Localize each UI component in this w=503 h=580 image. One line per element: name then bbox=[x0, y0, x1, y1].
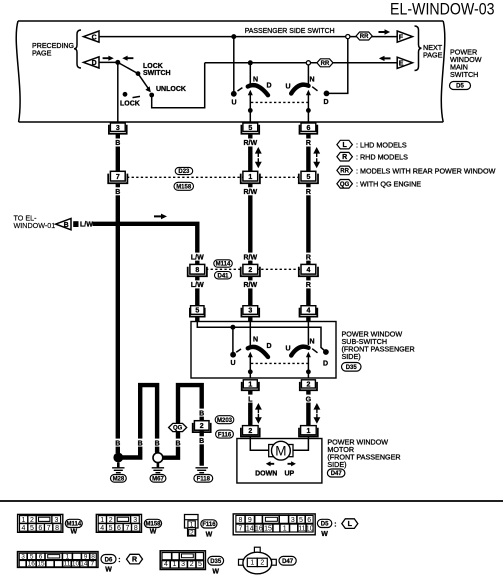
wire circle to N right switch bbox=[307, 65, 309, 84]
svg-text:R/W: R/W bbox=[243, 254, 257, 261]
ground M28 bbox=[113, 453, 123, 463]
svg-text:M203: M203 bbox=[217, 418, 233, 424]
svg-text:M: M bbox=[275, 444, 286, 459]
svg-text:U: U bbox=[231, 360, 236, 367]
svg-text:2: 2 bbox=[30, 517, 34, 524]
oval M158 panel ref bbox=[144, 519, 161, 527]
power window motor box outline bbox=[237, 439, 322, 484]
oval M114 ref bbox=[214, 260, 233, 267]
svg-text:1: 1 bbox=[283, 526, 287, 533]
wire R col3 conn5 to conn4 bbox=[306, 183, 310, 264]
double arrow col3 bbox=[314, 149, 319, 158]
connector 6 on main switch bbox=[300, 125, 318, 134]
label B col1 bottom bbox=[114, 439, 123, 447]
oval M114 panel ref bbox=[65, 519, 82, 527]
svg-text:D47: D47 bbox=[331, 471, 343, 477]
hexagon L panel bbox=[342, 519, 358, 529]
contact UNLOCK bbox=[149, 93, 154, 98]
dashed splice row2 bbox=[206, 268, 300, 270]
svg-text:R/W: R/W bbox=[243, 189, 257, 196]
label B above conn2 bbox=[197, 409, 206, 417]
svg-text:1: 1 bbox=[100, 517, 104, 524]
oval D41 ref bbox=[215, 272, 232, 279]
svg-text:B: B bbox=[115, 189, 120, 196]
svg-text:2: 2 bbox=[260, 560, 264, 567]
sub left wiper bbox=[249, 357, 251, 372]
page connector triangle B bbox=[56, 218, 71, 229]
svg-text:14: 14 bbox=[246, 526, 254, 533]
dashed splice row1 bbox=[127, 176, 300, 178]
legend hexagon R bbox=[337, 152, 353, 161]
wire junction to connector 3 bbox=[117, 62, 119, 122]
svg-text:M114: M114 bbox=[66, 522, 81, 528]
svg-text:RR: RR bbox=[360, 34, 369, 40]
svg-text:15: 15 bbox=[264, 526, 272, 533]
svg-text:6: 6 bbox=[307, 517, 311, 524]
svg-text:9: 9 bbox=[248, 517, 252, 524]
dashed link sub wipers bbox=[251, 362, 308, 364]
svg-text:: WITH QG ENGINE: : WITH QG ENGINE bbox=[356, 180, 421, 189]
oval D47 panel ref bbox=[279, 556, 296, 565]
label L/W above conn8 bbox=[190, 253, 204, 261]
svg-text::: : bbox=[118, 557, 120, 564]
arrow right on LW wire bbox=[154, 214, 167, 220]
wire sub conn4 to N right bbox=[307, 322, 309, 346]
wire unlock to E row bbox=[152, 63, 205, 108]
svg-text:8: 8 bbox=[238, 517, 242, 524]
main right D contact bbox=[324, 91, 330, 97]
main left wiper bbox=[249, 95, 251, 110]
connector 1 on motor bbox=[299, 428, 318, 437]
svg-text:3: 3 bbox=[55, 517, 59, 524]
svg-text:16: 16 bbox=[255, 526, 263, 533]
junction node C row bbox=[231, 34, 236, 39]
open circle node E row bbox=[306, 61, 310, 65]
sub switch right rocker arc bbox=[291, 347, 308, 356]
RR hexagon on E row bbox=[317, 59, 333, 67]
svg-text:B: B bbox=[115, 440, 120, 447]
svg-text:6: 6 bbox=[306, 125, 310, 132]
oval D35 ref bbox=[342, 363, 362, 372]
connector face D35 bbox=[160, 551, 205, 570]
svg-text:1: 1 bbox=[306, 428, 310, 435]
motor M symbol bbox=[269, 445, 293, 457]
svg-text:: RHD MODELS: : RHD MODELS bbox=[356, 153, 408, 162]
svg-text:2: 2 bbox=[200, 423, 204, 430]
svg-text:QG: QG bbox=[173, 426, 183, 432]
wire B col1 conn3 to conn7 bbox=[116, 134, 120, 172]
svg-text:D: D bbox=[324, 99, 329, 106]
ground F118 bbox=[196, 468, 208, 473]
arrow left on D wire bbox=[122, 56, 133, 61]
svg-text:RR: RR bbox=[340, 169, 349, 175]
svg-text:W: W bbox=[206, 532, 213, 539]
svg-text:D41: D41 bbox=[217, 273, 229, 279]
svg-text:L/W: L/W bbox=[191, 254, 204, 261]
svg-text:U: U bbox=[286, 346, 291, 353]
connector 5 on main switch bbox=[241, 125, 259, 134]
svg-text::: : bbox=[334, 522, 336, 529]
lock switch pivot wire bbox=[118, 62, 138, 73]
svg-text:UNLOCK: UNLOCK bbox=[156, 86, 186, 93]
svg-text:B: B bbox=[64, 222, 69, 229]
wire motor conn2 internal bbox=[250, 437, 268, 451]
svg-text:L/W: L/W bbox=[80, 222, 93, 229]
svg-text:10: 10 bbox=[72, 561, 80, 568]
svg-text:5: 5 bbox=[30, 553, 34, 560]
svg-text:F: F bbox=[399, 34, 404, 41]
wire C row bbox=[99, 36, 397, 38]
svg-text:B: B bbox=[138, 440, 143, 447]
wire D row to junction bbox=[99, 61, 118, 63]
svg-text:5: 5 bbox=[195, 308, 199, 315]
svg-text:UP: UP bbox=[285, 471, 295, 478]
svg-text:1: 1 bbox=[190, 521, 194, 528]
arrow left DOWN bbox=[266, 461, 274, 466]
main right wiper bbox=[307, 95, 309, 110]
connector face D5 bbox=[233, 514, 315, 535]
svg-text:W: W bbox=[321, 531, 328, 538]
svg-text:PAGE: PAGE bbox=[32, 49, 52, 58]
arrow right on F row bbox=[379, 29, 391, 34]
open circle node C row bbox=[346, 35, 350, 39]
brace right bbox=[415, 26, 422, 71]
oval D23 ref bbox=[175, 167, 193, 174]
wire start square bbox=[73, 221, 78, 227]
svg-text:D6: D6 bbox=[105, 557, 113, 563]
svg-text:D: D bbox=[267, 83, 272, 90]
svg-text:L/W: L/W bbox=[191, 282, 204, 289]
svg-text:B: B bbox=[115, 140, 120, 147]
ground M67 bbox=[153, 453, 163, 463]
svg-text:7: 7 bbox=[238, 526, 242, 533]
svg-text:2: 2 bbox=[190, 561, 194, 568]
svg-text:WINDOW-01: WINDOW-01 bbox=[14, 221, 56, 230]
oval F116 panel ref bbox=[201, 520, 217, 528]
svg-text:7: 7 bbox=[47, 525, 51, 532]
svg-text:R: R bbox=[342, 154, 347, 161]
svg-text:: LHD MODELS: : LHD MODELS bbox=[356, 141, 407, 150]
oval M158 ref bbox=[174, 182, 194, 190]
arrow right on D wire bbox=[103, 56, 114, 61]
svg-text:SIDE): SIDE) bbox=[342, 352, 361, 361]
svg-text:D: D bbox=[267, 343, 272, 350]
svg-text:F118: F118 bbox=[197, 477, 211, 483]
wire L sub conn1 to motor conn2 bbox=[248, 390, 252, 425]
arrow right UP bbox=[288, 461, 296, 466]
legend hexagon QG bbox=[337, 180, 353, 189]
oval F116 ref bbox=[216, 430, 234, 438]
svg-text:L: L bbox=[248, 396, 253, 403]
svg-text:R/W: R/W bbox=[243, 282, 257, 289]
svg-text:M158: M158 bbox=[176, 185, 192, 191]
svg-text:SIDE): SIDE) bbox=[327, 460, 346, 469]
main switch left rocker arc bbox=[248, 85, 268, 95]
svg-text:4: 4 bbox=[100, 525, 104, 532]
arrow left on E row bbox=[379, 56, 391, 61]
junction node D bbox=[115, 60, 120, 65]
connector 2 on motor bbox=[241, 428, 260, 437]
svg-text:U: U bbox=[232, 100, 237, 107]
wire RW col2 conn1 to conn2 bbox=[248, 183, 252, 264]
svg-text:D5: D5 bbox=[456, 84, 464, 90]
svg-text:M28: M28 bbox=[113, 477, 125, 483]
svg-text:EL-WINDOW-03: EL-WINDOW-03 bbox=[390, 0, 495, 19]
oval D5 panel ref bbox=[317, 519, 331, 527]
label B below conn2 bbox=[197, 436, 206, 444]
connector 7 inline bbox=[108, 174, 127, 184]
svg-text:F116: F116 bbox=[202, 522, 216, 528]
page connector triangle D bbox=[84, 57, 100, 68]
svg-text:8: 8 bbox=[91, 553, 95, 560]
svg-text:D23: D23 bbox=[178, 169, 190, 175]
sub right D contact bbox=[323, 349, 329, 355]
wire R col3 conn6 to conn5 bbox=[306, 134, 310, 172]
connector 5 on sub-switch bbox=[190, 308, 205, 317]
wire E row bbox=[205, 62, 398, 64]
wire sub conn3 to N left bbox=[249, 322, 251, 346]
contact LOCK bbox=[123, 92, 128, 97]
svg-text:4: 4 bbox=[306, 308, 310, 315]
svg-text:1: 1 bbox=[66, 553, 70, 560]
svg-text:W: W bbox=[70, 529, 77, 536]
svg-text:N: N bbox=[253, 337, 258, 344]
svg-text:5: 5 bbox=[30, 525, 34, 532]
hexagon R panel bbox=[127, 554, 143, 564]
svg-text:B: B bbox=[155, 440, 160, 447]
main switch right rocker arc bbox=[291, 85, 308, 94]
svg-text:3: 3 bbox=[116, 125, 120, 132]
svg-text:W: W bbox=[150, 529, 157, 536]
double arrow motor col2 bbox=[256, 405, 261, 414]
svg-text:8: 8 bbox=[195, 267, 199, 274]
svg-text:D47: D47 bbox=[282, 559, 294, 565]
connector 1 on sub-switch bottom bbox=[242, 382, 259, 390]
svg-text:R: R bbox=[132, 557, 137, 564]
brace left bbox=[74, 30, 81, 68]
svg-text:C: C bbox=[92, 34, 97, 41]
wire sub wipers to bottom connectors bbox=[249, 372, 251, 378]
wire B col1 long down bbox=[116, 183, 120, 453]
wire RW conn2 to sub conn3 bbox=[248, 276, 252, 306]
separator line bbox=[0, 500, 503, 502]
svg-text:B: B bbox=[199, 410, 204, 417]
svg-text:5: 5 bbox=[198, 561, 202, 568]
svg-text:5: 5 bbox=[306, 174, 310, 181]
double arrow motor col3 bbox=[315, 405, 320, 414]
svg-text:M158: M158 bbox=[145, 522, 161, 528]
svg-text:B: B bbox=[175, 440, 180, 447]
svg-text:2: 2 bbox=[109, 517, 113, 524]
svg-text:D: D bbox=[323, 361, 328, 368]
svg-text:8: 8 bbox=[134, 525, 138, 532]
wire wiper left to connector 5 bbox=[249, 110, 251, 122]
svg-text:15: 15 bbox=[37, 561, 45, 568]
svg-text:2: 2 bbox=[248, 267, 252, 274]
sub switch left rocker arc bbox=[248, 347, 268, 357]
svg-text:N: N bbox=[310, 339, 315, 346]
wire sub conn5 internal feed bbox=[197, 322, 326, 352]
junction node sub bbox=[230, 325, 235, 330]
page connector triangle F bbox=[397, 31, 412, 42]
svg-text:D5: D5 bbox=[321, 522, 329, 528]
svg-text:5: 5 bbox=[109, 525, 113, 532]
svg-text:3: 3 bbox=[21, 553, 25, 560]
svg-text:D35: D35 bbox=[210, 559, 222, 565]
oval D5 ref bbox=[450, 82, 471, 90]
svg-text:1: 1 bbox=[250, 560, 254, 567]
svg-text:8: 8 bbox=[55, 525, 59, 532]
svg-text:3: 3 bbox=[291, 517, 295, 524]
svg-text:: MODELS WITH REAR POWER WINDO: : MODELS WITH REAR POWER WINDOW bbox=[356, 166, 496, 175]
lock contact dash bbox=[133, 96, 141, 97]
svg-text:2: 2 bbox=[248, 428, 252, 435]
connector face D6 bbox=[18, 552, 99, 568]
connector 2 inline bottom bbox=[193, 423, 211, 432]
power window main switch box outline bbox=[16, 21, 445, 122]
oval D6 panel ref bbox=[101, 555, 116, 564]
lock switch arm bbox=[138, 74, 149, 90]
connector face D47 round bbox=[254, 547, 260, 553]
connector 3 on main switch bbox=[109, 125, 127, 134]
svg-text:9: 9 bbox=[84, 553, 88, 560]
junction node E row bbox=[248, 60, 253, 65]
connector 2 on sub-switch bottom bbox=[300, 382, 317, 390]
connector 5 inline bbox=[299, 174, 318, 184]
svg-text:7: 7 bbox=[125, 525, 129, 532]
svg-text:LOCK: LOCK bbox=[120, 101, 140, 108]
connector 2 inline bbox=[241, 267, 260, 277]
svg-text:D: D bbox=[92, 60, 97, 67]
svg-text:6: 6 bbox=[117, 525, 121, 532]
svg-text:L: L bbox=[348, 521, 353, 528]
svg-text:2: 2 bbox=[306, 382, 310, 389]
svg-text:14: 14 bbox=[80, 561, 88, 568]
svg-text:LOCK: LOCK bbox=[143, 63, 163, 70]
wire R conn4 to sub conn4 bbox=[306, 276, 310, 306]
svg-text:G: G bbox=[306, 396, 312, 403]
svg-text:SWITCH: SWITCH bbox=[143, 70, 171, 77]
svg-text:7: 7 bbox=[116, 174, 120, 181]
svg-text:R: R bbox=[306, 282, 311, 289]
oval M203 ref bbox=[215, 416, 234, 424]
connector 4 inline bbox=[299, 267, 318, 277]
svg-text:R/W: R/W bbox=[243, 140, 257, 147]
svg-text:M67: M67 bbox=[152, 477, 164, 483]
svg-text:3: 3 bbox=[248, 308, 252, 315]
svg-text:B: B bbox=[199, 438, 204, 445]
svg-text:DOWN: DOWN bbox=[255, 471, 277, 478]
svg-text:1: 1 bbox=[248, 174, 252, 181]
ground hook wire M28 to M67 bbox=[121, 385, 157, 457]
main left U contact bbox=[231, 91, 237, 97]
svg-text:2: 2 bbox=[190, 530, 194, 537]
svg-text:RR: RR bbox=[321, 61, 330, 67]
svg-text:7: 7 bbox=[90, 561, 94, 568]
RR hexagon on C row bbox=[356, 32, 372, 40]
svg-text:D35: D35 bbox=[346, 365, 358, 371]
svg-text:3: 3 bbox=[133, 517, 137, 524]
connector 4 on sub-switch bbox=[300, 308, 318, 317]
svg-text:N: N bbox=[310, 77, 315, 84]
page connector triangle C bbox=[84, 31, 100, 42]
svg-text:R: R bbox=[306, 254, 311, 261]
svg-text:W: W bbox=[212, 569, 219, 576]
connector 3 on sub-switch bbox=[241, 308, 259, 317]
page connector triangle E bbox=[397, 57, 412, 68]
wire C junction down to U contact bbox=[233, 37, 235, 91]
svg-text:E: E bbox=[399, 61, 404, 68]
svg-text:11: 11 bbox=[64, 561, 71, 568]
wire G sub conn2 to motor conn1 bbox=[306, 390, 310, 425]
svg-text:5: 5 bbox=[299, 517, 303, 524]
connector 8 inline bbox=[188, 267, 207, 277]
QG hexagon on wire bbox=[169, 423, 187, 431]
svg-text:PASSENGER SIDE SWITCH: PASSENGER SIDE SWITCH bbox=[245, 26, 335, 35]
svg-text:4: 4 bbox=[306, 267, 310, 274]
svg-text:4: 4 bbox=[164, 561, 168, 568]
svg-text:L: L bbox=[342, 142, 347, 149]
wire motor conn1 internal bbox=[293, 437, 308, 451]
svg-text:6: 6 bbox=[39, 553, 43, 560]
ground hook wire M67 to F118 bbox=[163, 385, 202, 466]
sub right wiper bbox=[307, 357, 309, 372]
connector face F116 bbox=[185, 515, 199, 537]
svg-text:F116: F116 bbox=[218, 432, 232, 438]
oval D47 ref bbox=[327, 469, 345, 477]
double arrow col2 bbox=[256, 149, 261, 158]
svg-text:10: 10 bbox=[306, 526, 314, 533]
wire LW conn8 to sub conn5 bbox=[195, 276, 199, 306]
svg-text:1: 1 bbox=[22, 517, 26, 524]
svg-text:M114: M114 bbox=[216, 262, 231, 268]
svg-text:W: W bbox=[105, 567, 112, 574]
svg-text:16: 16 bbox=[28, 561, 36, 568]
svg-text:11: 11 bbox=[298, 526, 305, 533]
svg-text:QG: QG bbox=[340, 182, 350, 188]
wire wiper right to connector 6 bbox=[307, 110, 309, 122]
svg-text:5: 5 bbox=[248, 125, 252, 132]
legend hexagon L bbox=[337, 140, 353, 149]
dashed link between wipers bbox=[251, 101, 308, 103]
wire D contact right switch to C row bbox=[329, 39, 348, 94]
svg-text:4: 4 bbox=[22, 525, 26, 532]
svg-text:6: 6 bbox=[38, 525, 42, 532]
svg-text:3: 3 bbox=[181, 561, 185, 568]
connector face M114 bbox=[18, 514, 63, 532]
power window sub-switch box outline bbox=[191, 322, 336, 379]
sub left U contact bbox=[230, 352, 236, 358]
lock switch pivot bbox=[136, 71, 141, 76]
wire junction to U contact sub bbox=[232, 327, 234, 352]
svg-text:PAGE: PAGE bbox=[423, 51, 443, 60]
svg-text:R: R bbox=[306, 140, 311, 147]
wire LW horizontal bbox=[93, 224, 198, 265]
oval D35 panel ref bbox=[208, 556, 224, 565]
svg-text:SWITCH: SWITCH bbox=[450, 70, 478, 79]
svg-text:U: U bbox=[286, 84, 291, 91]
wire RW col2 conn5 to conn1 bbox=[248, 134, 252, 172]
wire junction to N left switch bbox=[249, 63, 251, 84]
svg-text:1: 1 bbox=[248, 382, 252, 389]
connector face M158 bbox=[96, 514, 141, 532]
connector 1 inline bbox=[241, 174, 260, 184]
svg-text:N: N bbox=[253, 77, 258, 84]
legend hexagon RR bbox=[337, 166, 353, 175]
svg-text:R: R bbox=[306, 189, 311, 196]
svg-text:1: 1 bbox=[173, 561, 177, 568]
